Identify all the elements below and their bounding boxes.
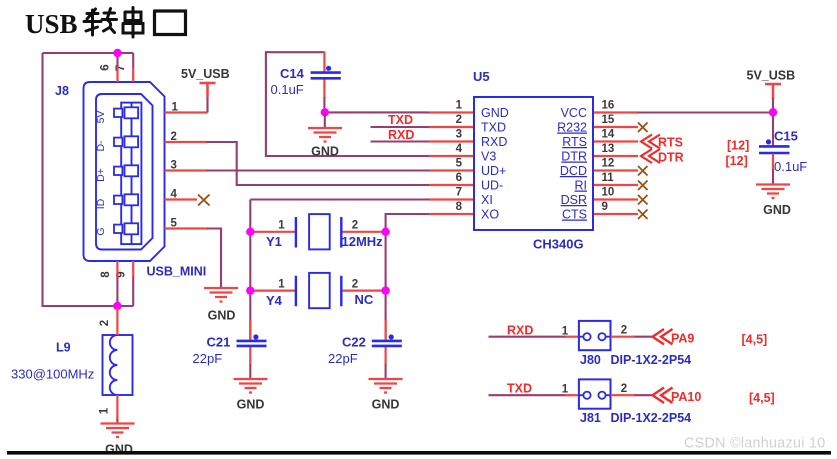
USB pin4 stub with no-connect X bbox=[165, 198, 198, 200]
port chevron DTR pin13 bbox=[641, 149, 660, 163]
svg-text:DIP-1X2-2P54: DIP-1X2-2P54 bbox=[611, 411, 692, 425]
wire TXD to J81 pin1 bbox=[489, 394, 567, 396]
svg-text:11: 11 bbox=[602, 172, 615, 184]
svg-text:PA10: PA10 bbox=[671, 390, 701, 404]
svg-text:UD-: UD- bbox=[481, 179, 503, 193]
L9 wire to ground bbox=[116, 419, 118, 423]
svg-text:C22: C22 bbox=[342, 335, 366, 350]
ground symbol below C14 bbox=[308, 128, 342, 142]
U5 right pin labels bbox=[557, 106, 587, 222]
svg-text:C21: C21 bbox=[207, 335, 231, 350]
svg-text:12: 12 bbox=[602, 158, 615, 170]
junction dot VCC rail bbox=[769, 108, 777, 116]
capacitor C15 bbox=[759, 129, 807, 175]
U5 right pin stubs 16-9 (red) bbox=[593, 113, 638, 215]
svg-text:5V: 5V bbox=[95, 111, 107, 124]
power port 5V_USB (right) bbox=[765, 84, 781, 99]
wire J81 pin2 to port PA10 bbox=[611, 394, 636, 396]
wire XI net bbox=[250, 200, 429, 341]
J80 body bbox=[579, 321, 611, 350]
svg-text:DSR: DSR bbox=[561, 193, 587, 207]
port chevron RTS pin14 bbox=[641, 135, 660, 149]
svg-text:0.1uF: 0.1uF bbox=[774, 159, 807, 174]
capacitor C22 bbox=[328, 320, 402, 366]
wire J80 pin2 to port PA9 bbox=[611, 336, 636, 338]
svg-text:XI: XI bbox=[481, 193, 493, 207]
svg-text:TXD: TXD bbox=[507, 382, 532, 396]
svg-text:CSDN ©lanhuazui 10: CSDN ©lanhuazui 10 bbox=[684, 436, 826, 452]
svg-text:8: 8 bbox=[100, 271, 112, 278]
svg-text:16: 16 bbox=[602, 100, 615, 112]
svg-text:VCC: VCC bbox=[561, 106, 587, 120]
J8 pin numbers 1-5 bbox=[171, 102, 179, 230]
wire C22 to ground bbox=[385, 364, 387, 379]
svg-text:V3: V3 bbox=[481, 150, 496, 164]
ground symbol below C21 bbox=[234, 379, 268, 393]
svg-text:G: G bbox=[95, 227, 107, 235]
svg-text:D+: D+ bbox=[95, 168, 107, 182]
svg-text:RI: RI bbox=[575, 179, 588, 193]
svg-text:2: 2 bbox=[621, 383, 627, 395]
U5 right pin numbers bbox=[602, 100, 615, 214]
wire C21 to ground bbox=[249, 364, 251, 379]
wire V3 loop for C14 bbox=[266, 52, 429, 156]
capacitor C14 bbox=[271, 52, 341, 99]
svg-text:0.1uF: 0.1uF bbox=[271, 82, 304, 97]
J8 rotated pin numbers 6 7 8 9 bbox=[100, 64, 128, 277]
ground symbol below USB pin5 bbox=[204, 288, 238, 302]
connector J8 USB_MINI body bbox=[84, 82, 165, 261]
junction dots Y1 bbox=[246, 228, 254, 236]
svg-text:1: 1 bbox=[99, 407, 111, 414]
no-connect X pins 15 12 11 10 9 bbox=[638, 123, 648, 220]
wire top loop from pins 6,7 bbox=[43, 53, 134, 306]
svg-text:4: 4 bbox=[456, 143, 463, 155]
svg-text:[12]: [12] bbox=[726, 154, 748, 168]
svg-text:RXD: RXD bbox=[481, 135, 507, 149]
wire 5V to junction bbox=[772, 98, 774, 146]
J8 pin name labels 5V D- D+ ID G bbox=[95, 111, 107, 236]
J8 contact pads bbox=[114, 107, 138, 234]
svg-text:[4,5]: [4,5] bbox=[749, 391, 775, 405]
svg-text:RXD: RXD bbox=[507, 324, 533, 338]
svg-text:GND: GND bbox=[481, 106, 509, 120]
wire D+ from USB pin3 to U5 UD+ bbox=[165, 169, 208, 171]
inductor L9 bbox=[103, 335, 133, 395]
USB pin5 wire to GND bbox=[165, 227, 209, 229]
svg-text:GND: GND bbox=[311, 145, 339, 159]
svg-text:J8: J8 bbox=[55, 84, 69, 98]
svg-text:TXD: TXD bbox=[388, 113, 413, 127]
svg-text:1: 1 bbox=[456, 100, 463, 112]
svg-text:C14: C14 bbox=[280, 66, 305, 81]
svg-text:GND: GND bbox=[208, 309, 236, 323]
svg-text:22pF: 22pF bbox=[328, 351, 358, 366]
wire C15 to ground bbox=[772, 169, 774, 184]
svg-text:CH340G: CH340G bbox=[533, 237, 584, 252]
junction dot under C14 bbox=[321, 108, 329, 116]
svg-text:GND: GND bbox=[763, 203, 791, 217]
svg-text:2: 2 bbox=[456, 114, 462, 126]
svg-text:Y1: Y1 bbox=[266, 234, 282, 249]
wire junction to ground bbox=[324, 112, 326, 127]
svg-text:Y4: Y4 bbox=[266, 293, 283, 308]
junction dot top bbox=[113, 49, 121, 57]
svg-text:DTR: DTR bbox=[561, 150, 587, 164]
junction dots Y4 bbox=[246, 286, 254, 294]
power port 5V_USB (left) bbox=[200, 83, 216, 97]
svg-text:J80: J80 bbox=[580, 353, 601, 367]
svg-text:USB: USB bbox=[25, 9, 78, 39]
svg-text:10: 10 bbox=[602, 187, 615, 199]
wire D- from USB pin2 to U5 UD- bbox=[165, 141, 208, 143]
junction dot bottom bbox=[113, 302, 121, 310]
svg-text:U5: U5 bbox=[473, 69, 490, 84]
svg-text:PA9: PA9 bbox=[671, 332, 694, 346]
svg-text:22pF: 22pF bbox=[193, 351, 223, 366]
header J80 bbox=[489, 321, 768, 367]
svg-text:[4,5]: [4,5] bbox=[742, 333, 768, 347]
wire RXD to U5 pin3 bbox=[371, 140, 430, 142]
ground symbol below C22 bbox=[369, 379, 403, 393]
svg-text:DCD: DCD bbox=[560, 164, 587, 178]
wire XO net bbox=[386, 214, 429, 340]
capacitor C21 bbox=[193, 320, 267, 366]
svg-text:ID: ID bbox=[95, 198, 107, 209]
L9 pin stubs bbox=[116, 308, 118, 420]
svg-text:5: 5 bbox=[456, 158, 463, 170]
svg-text:USB_MINI: USB_MINI bbox=[147, 265, 207, 279]
svg-text:TXD: TXD bbox=[481, 121, 506, 135]
svg-text:2: 2 bbox=[352, 220, 358, 232]
pin stubs 6 7 8 9 (red) bbox=[117, 67, 133, 277]
ground symbol below L9 bbox=[101, 424, 135, 438]
U5 left pin numbers bbox=[456, 100, 463, 214]
svg-text:NC: NC bbox=[355, 292, 374, 307]
svg-text:RTS: RTS bbox=[658, 136, 683, 150]
svg-text:2: 2 bbox=[99, 320, 111, 326]
svg-text:DTR: DTR bbox=[658, 151, 684, 165]
svg-text:1: 1 bbox=[278, 220, 285, 232]
title USB转串口 bbox=[25, 8, 186, 40]
svg-text:15: 15 bbox=[602, 114, 615, 126]
port chevron PA9 bbox=[653, 329, 673, 344]
header J81 bbox=[489, 379, 775, 425]
svg-text:R232: R232 bbox=[557, 121, 587, 135]
op-amp U5 body CH340G bbox=[474, 97, 593, 230]
svg-text:UD+: UD+ bbox=[481, 164, 506, 178]
svg-text:6: 6 bbox=[456, 172, 462, 184]
svg-text:DIP-1X2-2P54: DIP-1X2-2P54 bbox=[611, 353, 692, 367]
svg-text:RXD: RXD bbox=[388, 128, 414, 142]
wire TXD to U5 pin2 bbox=[371, 126, 430, 128]
U5 left pin labels bbox=[481, 106, 509, 222]
wire VCC pin16 to 5V_USB rail bbox=[637, 111, 773, 113]
svg-text:XO: XO bbox=[481, 208, 499, 222]
USB pin1 wire to 5V_USB bbox=[165, 111, 208, 113]
wire C14 to junction and U5 GND pin bbox=[324, 97, 429, 112]
svg-text:GND: GND bbox=[237, 398, 265, 412]
wire RXD to J80 pin1 bbox=[489, 336, 567, 338]
svg-text:2: 2 bbox=[352, 278, 358, 290]
svg-text:9: 9 bbox=[602, 201, 608, 213]
svg-text:GND: GND bbox=[372, 398, 400, 412]
svg-text:3: 3 bbox=[456, 129, 462, 141]
J81 body bbox=[579, 379, 611, 408]
svg-text:8: 8 bbox=[456, 201, 463, 213]
svg-text:6: 6 bbox=[100, 64, 112, 70]
ground symbol below C15 bbox=[756, 185, 790, 199]
svg-text:C15: C15 bbox=[774, 129, 798, 144]
svg-text:[12]: [12] bbox=[727, 139, 749, 153]
svg-text:2: 2 bbox=[621, 325, 627, 337]
svg-text:330@100MHz: 330@100MHz bbox=[11, 367, 94, 382]
svg-text:J81: J81 bbox=[580, 411, 601, 425]
svg-text:L9: L9 bbox=[56, 341, 71, 355]
crystal Y1 bbox=[251, 214, 385, 249]
U5 left pin stubs 1-8 (red) bbox=[429, 113, 474, 215]
crystal Y4 bbox=[251, 273, 385, 308]
svg-text:5V_USB: 5V_USB bbox=[747, 69, 796, 83]
svg-text:12MHz: 12MHz bbox=[342, 234, 384, 249]
port chevron PA10 bbox=[653, 388, 673, 403]
svg-text:1: 1 bbox=[278, 278, 285, 290]
svg-text:1: 1 bbox=[562, 326, 569, 338]
svg-text:RTS: RTS bbox=[562, 135, 587, 149]
svg-text:CTS: CTS bbox=[562, 208, 587, 222]
bottom border line bbox=[7, 451, 831, 455]
svg-text:14: 14 bbox=[602, 129, 615, 141]
svg-text:1: 1 bbox=[562, 384, 569, 396]
svg-text:7: 7 bbox=[456, 187, 462, 199]
svg-text:5V_USB: 5V_USB bbox=[181, 67, 230, 81]
svg-text:13: 13 bbox=[602, 143, 615, 155]
svg-text:D-: D- bbox=[95, 140, 107, 152]
